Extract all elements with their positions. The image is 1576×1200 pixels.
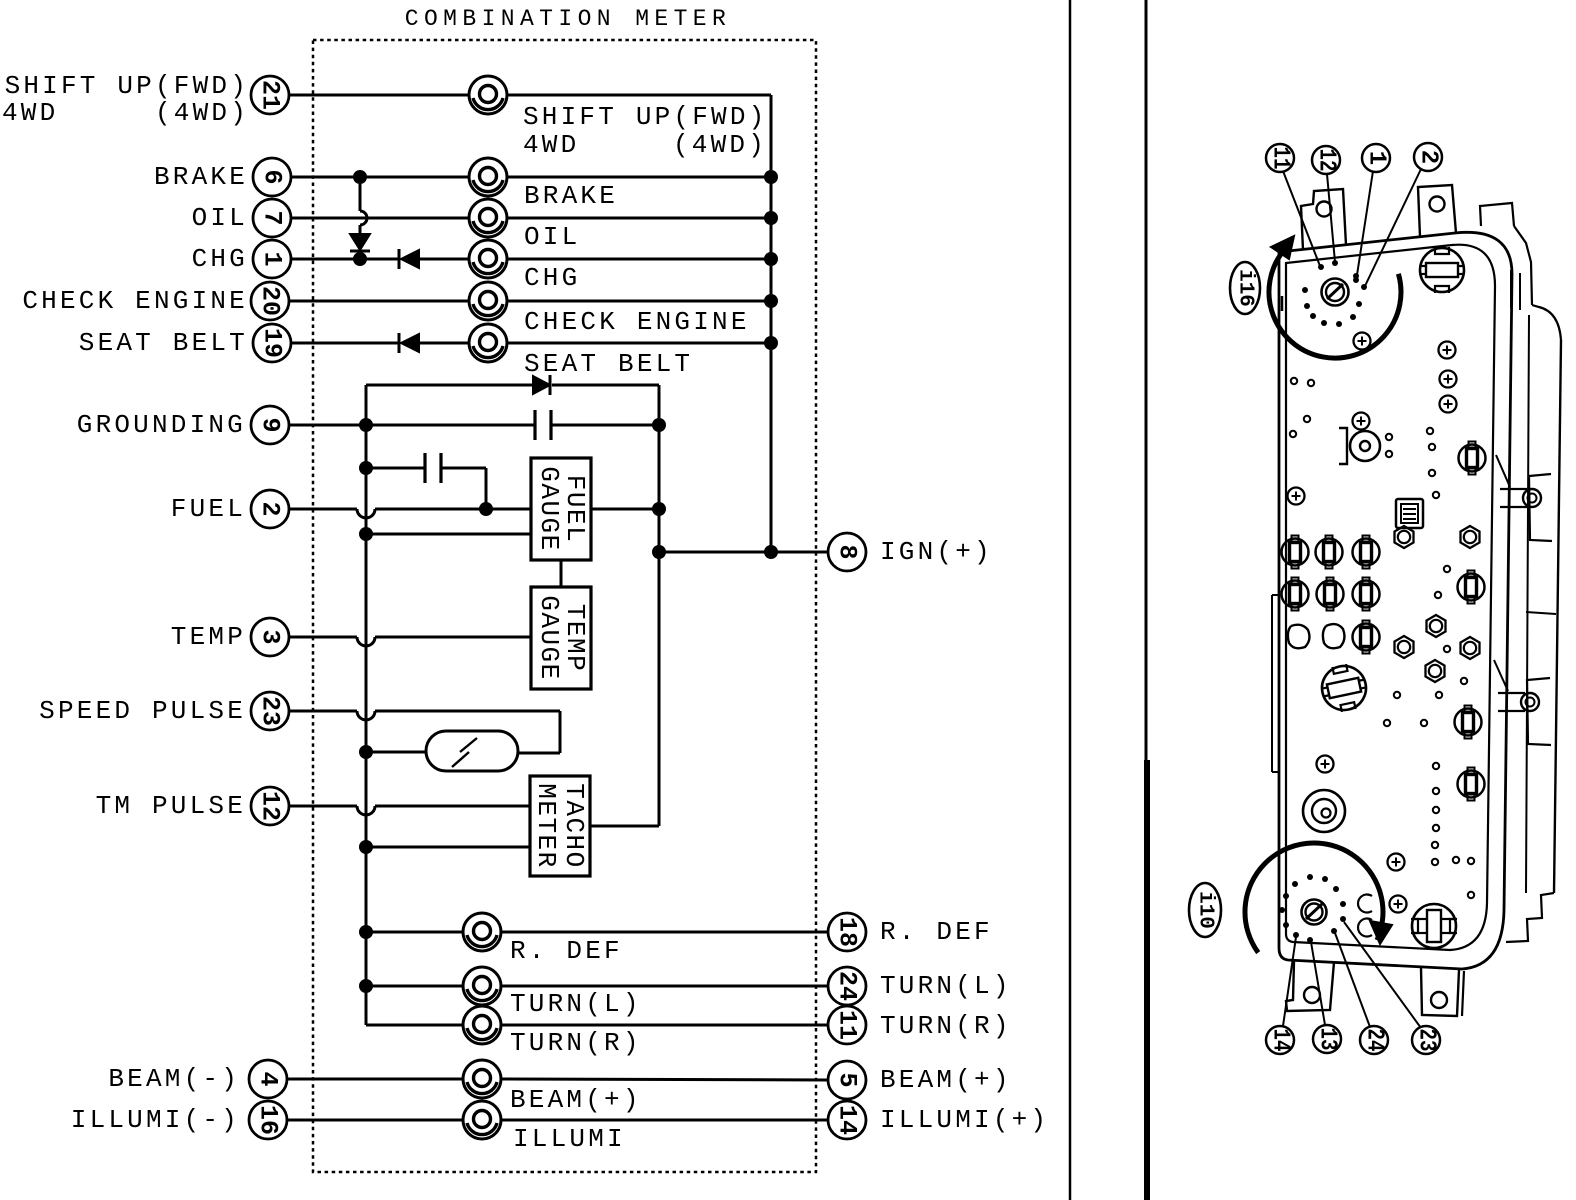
wire tacho lower xyxy=(366,846,530,849)
junction fuel-cap-branch xyxy=(479,502,493,516)
svg-text:TURN(L): TURN(L) xyxy=(510,989,642,1019)
wire diode loop top left xyxy=(366,384,534,387)
svg-text:16: 16 xyxy=(254,1105,283,1135)
svg-text:TURN(R): TURN(R) xyxy=(510,1028,642,1058)
lamp SEAT BELT xyxy=(469,324,507,362)
hex nut 2 xyxy=(1461,526,1480,548)
hex nut 1 xyxy=(1395,526,1414,548)
wire fuel hop xyxy=(357,509,375,518)
lamp SHIFT UP xyxy=(469,76,507,114)
connector pin 14 xyxy=(828,1101,866,1139)
svg-text:3: 3 xyxy=(256,629,285,644)
junction ign-right-bus xyxy=(764,545,778,559)
junction check-engine-bus xyxy=(764,294,778,308)
wire temp pin to hop xyxy=(289,636,357,639)
wire seat-belt lamp to bus xyxy=(507,342,771,345)
cross screw 1 xyxy=(1354,333,1371,350)
callout pin 13 xyxy=(1313,1025,1341,1053)
wire fuel pin to hop xyxy=(289,508,357,511)
wire oil pin to lamp xyxy=(291,217,469,220)
bulb socket 7 xyxy=(1353,621,1380,654)
junction chg-diode xyxy=(353,252,367,266)
key notch top connector xyxy=(1281,296,1284,311)
svg-text:19: 19 xyxy=(258,328,287,358)
svg-text:COMBINATION METER: COMBINATION METER xyxy=(405,6,731,32)
cross screw 8 xyxy=(1388,854,1405,871)
svg-text:ILLUMI(-): ILLUMI(-) xyxy=(71,1105,240,1135)
housing cross tick xyxy=(1526,612,1556,614)
bulb socket 4 xyxy=(1282,578,1309,611)
svg-text:1: 1 xyxy=(1363,151,1390,165)
svg-text:24: 24 xyxy=(1361,1029,1388,1052)
svg-text:23: 23 xyxy=(1413,1029,1440,1052)
label SEAT BELT inner xyxy=(524,349,693,379)
diode D4 loop xyxy=(533,375,550,395)
hinge pin lower xyxy=(1498,678,1551,745)
cross screw 9 xyxy=(1390,896,1407,913)
bulb socket 6 xyxy=(1353,578,1380,611)
big socket bottom xyxy=(1411,904,1457,948)
diode D1 brake-chg xyxy=(350,234,370,259)
svg-text:OIL: OIL xyxy=(192,203,248,233)
label 4WD inner xyxy=(523,130,579,160)
label OIL inner xyxy=(524,222,580,252)
callout pin 2 xyxy=(1414,143,1442,171)
wire rdef left xyxy=(366,931,463,934)
hex nut 6 xyxy=(1426,660,1445,682)
svg-text:TURN(R): TURN(R) xyxy=(880,1011,1012,1041)
svg-text:BRAKE: BRAKE xyxy=(154,162,248,192)
tacho meter box xyxy=(530,776,590,876)
meter body left tab xyxy=(1272,595,1279,772)
callout pin 1 xyxy=(1362,144,1390,172)
junction grounding-left-bus xyxy=(359,418,373,432)
socket arcs right of bottom connector xyxy=(1358,894,1372,936)
housing clip top-right xyxy=(1480,203,1532,305)
svg-text:SEAT BELT: SEAT BELT xyxy=(524,349,693,379)
label R. DEF inner xyxy=(510,936,623,966)
bulb socket 3 xyxy=(1353,536,1380,569)
connector pin 19 xyxy=(253,324,291,362)
connector pin 21 xyxy=(251,76,289,114)
label FUEL xyxy=(171,494,246,524)
bulb socket 9 xyxy=(1458,571,1485,604)
housing steps bottom-right xyxy=(1506,893,1554,942)
wire tm pin to hop xyxy=(289,805,357,808)
lamp ILLUMI xyxy=(463,1101,501,1139)
connector pin 8 xyxy=(828,533,866,571)
lamp CHECK ENGINE xyxy=(469,282,507,320)
separator line xyxy=(1069,0,1072,1200)
wire temp hop xyxy=(357,637,375,646)
wire ign from mid bus xyxy=(659,551,828,554)
svg-text:2: 2 xyxy=(1415,150,1442,164)
leader line pin 11 xyxy=(1283,171,1320,266)
wire chg diode to lamp xyxy=(419,258,469,261)
wire turnR lamp to pin xyxy=(501,1024,828,1027)
junction brake-bus xyxy=(764,170,778,184)
wire speed pin to hop xyxy=(289,710,357,713)
leader line pin 2 xyxy=(1365,169,1421,286)
bulb socket 11 xyxy=(1458,768,1485,801)
wire turnL lamp to pin xyxy=(501,985,828,988)
junction chg-bus xyxy=(764,252,778,266)
wire grounding cap to mid bus xyxy=(551,424,659,427)
svg-text:FUEL: FUEL xyxy=(171,494,246,524)
label SHIFT UP(FWD) xyxy=(5,71,249,101)
label SEAT BELT xyxy=(79,328,248,358)
wire illumi pin to lamp xyxy=(287,1119,463,1122)
label CHECK ENGINE xyxy=(22,286,248,316)
label BRAKE inner xyxy=(524,181,618,211)
connector pin 16 xyxy=(249,1101,287,1139)
label TEMP xyxy=(171,622,246,652)
connector pin 6 xyxy=(253,158,291,196)
cross screw 5 xyxy=(1353,413,1370,430)
wire speed hop to corner xyxy=(375,711,560,753)
svg-text:TEMP: TEMP xyxy=(171,622,246,652)
diode D3 seat belt xyxy=(399,333,419,353)
wire beam lamp to pin xyxy=(501,1079,828,1080)
connector pin 1 xyxy=(253,240,291,278)
label CHG xyxy=(192,244,248,274)
svg-text:TACHO: TACHO xyxy=(559,783,589,869)
svg-text:BEAM(+): BEAM(+) xyxy=(880,1065,1012,1095)
mounting tab top-right xyxy=(1418,185,1456,237)
lamp BRAKE xyxy=(469,158,507,196)
wire tm hop xyxy=(357,806,375,815)
wire brake pin to lamp xyxy=(291,176,469,179)
svg-text:SEAT BELT: SEAT BELT xyxy=(79,328,248,358)
vent connector xyxy=(1396,499,1423,528)
gauge motor xyxy=(1303,790,1345,832)
label ILLUMI(+) xyxy=(880,1105,1049,1135)
svg-text:ILLUMI: ILLUMI xyxy=(513,1124,626,1154)
wire fuel lower xyxy=(366,533,531,536)
label GROUNDING xyxy=(77,410,246,440)
cross screw 7 xyxy=(1317,756,1334,773)
svg-text:i16: i16 xyxy=(1234,269,1257,307)
wire fuel hop to gauge xyxy=(375,508,531,511)
junction seat-belt-bus xyxy=(764,336,778,350)
svg-text:IGN(+): IGN(+) xyxy=(880,537,993,567)
wire check-engine pin to lamp xyxy=(289,300,469,303)
hinge strut lower xyxy=(1494,660,1508,691)
junction rdef-left-bus xyxy=(359,925,373,939)
svg-text:21: 21 xyxy=(256,80,285,110)
svg-text:ILLUMI(+): ILLUMI(+) xyxy=(880,1105,1049,1135)
bulb socket 1 xyxy=(1282,536,1309,569)
wire oil lamp to bus xyxy=(507,217,771,220)
leader line pin 13 xyxy=(1311,942,1325,1025)
svg-text:BEAM(-): BEAM(-) xyxy=(108,1064,240,1094)
lamp CHG xyxy=(469,240,507,278)
connector pin 4 xyxy=(249,1060,287,1098)
wire reed to corner xyxy=(518,752,560,755)
connector pin 20 xyxy=(251,282,289,320)
lamp OIL xyxy=(469,199,507,237)
svg-text:OIL: OIL xyxy=(524,222,580,252)
callout pin 23 xyxy=(1412,1026,1440,1054)
wire seat-belt diode to lamp xyxy=(419,342,469,345)
hinge strut upper xyxy=(1496,455,1510,487)
screw bottom connector xyxy=(1302,900,1327,925)
wire chg pin to diode xyxy=(291,258,400,261)
capacitor C2 fuel xyxy=(425,453,441,483)
svg-text:4: 4 xyxy=(254,1071,283,1086)
leader line pin 12 xyxy=(1327,174,1335,262)
fuel gauge box xyxy=(531,458,591,560)
title COMBINATION METER xyxy=(405,6,731,32)
label (4WD) inner xyxy=(673,130,767,160)
housing ear arc xyxy=(1532,305,1561,340)
housing right inner edge xyxy=(1526,315,1529,893)
label R. DEF xyxy=(880,917,993,947)
connector pin 2 xyxy=(251,490,289,528)
label SPEED PULSE xyxy=(39,696,246,726)
svg-text:GAUGE: GAUGE xyxy=(534,466,564,552)
hex nut 3 xyxy=(1427,615,1446,637)
wire grounding pin to cap xyxy=(289,424,535,427)
junction turnL-left-bus xyxy=(359,979,373,993)
label (4WD) xyxy=(155,98,249,128)
frame line lower xyxy=(1144,760,1150,1200)
svg-text:GAUGE: GAUGE xyxy=(534,595,564,681)
junction oil-bus xyxy=(764,211,778,225)
svg-text:4WD: 4WD xyxy=(523,130,579,160)
label TURN(R) inner xyxy=(510,1028,642,1058)
capacitor C1 grounding xyxy=(535,410,551,440)
big socket top xyxy=(1420,247,1464,293)
label OIL xyxy=(192,203,248,233)
svg-text:6: 6 xyxy=(258,169,287,184)
wire speed hop xyxy=(357,711,375,720)
svg-text:14: 14 xyxy=(1267,1029,1294,1052)
svg-text:BEAM(+): BEAM(+) xyxy=(510,1085,642,1115)
wire fuel gauge to mid bus xyxy=(591,508,659,511)
svg-text:SHIFT UP(FWD): SHIFT UP(FWD) xyxy=(523,102,767,132)
label BEAM(+) inner xyxy=(510,1085,642,1115)
wire diode loop top right xyxy=(552,384,659,387)
trip hub xyxy=(1339,428,1380,464)
wire tm hop to tacho xyxy=(375,805,530,808)
rotation arrow bottom connector xyxy=(1370,921,1392,944)
rotation arc top connector xyxy=(1269,252,1401,358)
cross screw 6 xyxy=(1288,488,1305,505)
junction ign-mid-bus xyxy=(652,545,666,559)
label TM PULSE xyxy=(96,791,246,821)
svg-text:18: 18 xyxy=(833,917,862,947)
callout pin 14 xyxy=(1266,1026,1294,1054)
socket hole 1 xyxy=(1288,625,1310,649)
svg-text:TURN(L): TURN(L) xyxy=(880,971,1012,1001)
svg-text:METER: METER xyxy=(531,783,561,869)
connector pin 9 xyxy=(251,406,289,444)
wire left bus vertical xyxy=(365,385,368,1025)
connector pin 18 xyxy=(828,913,866,951)
svg-text:CHG: CHG xyxy=(524,263,580,293)
hex nut 5 xyxy=(1461,637,1480,659)
wire temp hop to gauge xyxy=(375,636,531,639)
wire shift-up pin to lamp xyxy=(289,94,469,97)
svg-text:13: 13 xyxy=(1314,1028,1341,1051)
rotation arc bottom connector xyxy=(1245,843,1383,953)
meter body inner rim xyxy=(1286,245,1495,950)
svg-text:5: 5 xyxy=(833,1072,862,1087)
junction fuel-out-mid-bus xyxy=(652,502,666,516)
wire fuel-temp gauge link xyxy=(560,560,563,587)
svg-text:i10: i10 xyxy=(1194,891,1217,929)
screw top connector xyxy=(1322,279,1349,306)
svg-text:(4WD): (4WD) xyxy=(673,130,767,160)
label TURN(R) xyxy=(880,1011,1012,1041)
leader line pin 23 xyxy=(1344,922,1421,1028)
big socket left-mid xyxy=(1318,661,1371,715)
lamp TURN(L) xyxy=(463,967,501,1005)
housing right edge xyxy=(1554,340,1561,893)
junction grounding-mid-bus xyxy=(652,418,666,432)
callout pin 12 xyxy=(1312,146,1340,174)
wire left bus to reed xyxy=(366,751,426,754)
cross screw 2 xyxy=(1439,342,1456,359)
svg-text:9: 9 xyxy=(256,417,285,432)
mounting tab top-left xyxy=(1301,189,1346,250)
svg-text:(4WD): (4WD) xyxy=(155,98,249,128)
hinge pin upper xyxy=(1500,474,1552,541)
wire seat-belt pin to diode xyxy=(291,342,400,345)
svg-text:23: 23 xyxy=(256,696,285,726)
junction fuel-lower-left-bus xyxy=(359,527,373,541)
connector pin 5 xyxy=(828,1061,866,1099)
connector pin 23 xyxy=(251,692,289,730)
rotation arrow top connector xyxy=(1271,236,1294,259)
lamp R.DEF xyxy=(463,913,501,951)
label CHECK ENGINE inner xyxy=(524,307,750,337)
housing clip slot xyxy=(1511,270,1520,310)
svg-text:12: 12 xyxy=(1313,149,1340,172)
svg-text:TM PULSE: TM PULSE xyxy=(96,791,246,821)
svg-text:20: 20 xyxy=(256,286,285,316)
frame line upper xyxy=(1145,0,1148,760)
leader line pin 14 xyxy=(1283,937,1296,1026)
callout pin 24 xyxy=(1360,1026,1388,1054)
wire illumi lamp to pin xyxy=(501,1119,828,1122)
bulb socket 10 xyxy=(1455,706,1482,739)
wire mid bus vertical xyxy=(658,385,661,826)
connector pin 3 xyxy=(251,618,289,656)
svg-text:SHIFT UP(FWD): SHIFT UP(FWD) xyxy=(5,71,249,101)
label IGN(+) xyxy=(880,537,993,567)
wire cap branch right xyxy=(441,468,486,509)
bulb socket 2 xyxy=(1316,536,1343,569)
cross screw 3 xyxy=(1440,371,1457,388)
svg-text:R. DEF: R. DEF xyxy=(510,936,623,966)
rivet dots xyxy=(1290,378,1474,898)
label BEAM(-) xyxy=(108,1064,240,1094)
hex nut 4 xyxy=(1395,636,1414,658)
connector pin 12 xyxy=(251,787,289,825)
label BEAM(+) xyxy=(880,1065,1012,1095)
wire rdef lamp to pin xyxy=(501,931,828,934)
label i16 xyxy=(1230,262,1260,314)
wire turnL left xyxy=(366,985,463,988)
label TURN(L) inner xyxy=(510,989,642,1019)
svg-text:14: 14 xyxy=(833,1105,862,1135)
socket hole 2 xyxy=(1323,624,1345,648)
svg-text:CHG: CHG xyxy=(192,244,248,274)
wire cap branch left xyxy=(366,467,425,470)
svg-text:BRAKE: BRAKE xyxy=(524,181,618,211)
bulb socket 8 xyxy=(1459,442,1486,475)
svg-text:GROUNDING: GROUNDING xyxy=(77,410,246,440)
connector pin 11 xyxy=(828,1006,866,1044)
mounting tab bottom-right xyxy=(1421,968,1464,1016)
mounting tab bottom-left xyxy=(1286,961,1334,1011)
svg-text:12: 12 xyxy=(256,791,285,821)
label CHG inner xyxy=(524,263,580,293)
connector pin 7 xyxy=(253,199,291,237)
leader line pin 1 xyxy=(1357,171,1373,275)
lamp BEAM xyxy=(463,1060,501,1098)
connector pin 24 xyxy=(828,967,866,1005)
bulb socket 5 xyxy=(1317,578,1344,611)
label ILLUMI inner xyxy=(513,1124,626,1154)
terminal dots top connector xyxy=(1302,260,1367,327)
wire diode chain upper xyxy=(359,177,362,211)
label BRAKE xyxy=(154,162,248,192)
svg-text:11: 11 xyxy=(833,1010,862,1040)
junction cap-branch-left-bus xyxy=(359,461,373,475)
wire right bus vertical xyxy=(770,95,773,552)
label SHIFT UP(FWD) inner xyxy=(523,102,767,132)
wire beam pin to lamp xyxy=(287,1078,463,1081)
wire diode chain hop over oil xyxy=(360,211,367,225)
svg-text:7: 7 xyxy=(258,210,287,225)
wire shift-up lamp to bus xyxy=(507,94,771,97)
svg-text:8: 8 xyxy=(833,544,862,559)
svg-text:R. DEF: R. DEF xyxy=(880,917,993,947)
wire diode chain lower xyxy=(359,225,362,234)
lamp TURN(R) xyxy=(463,1006,501,1044)
combination meter dashed enclosure xyxy=(313,40,816,1172)
svg-text:4WD: 4WD xyxy=(2,98,58,128)
wire brake lamp to bus xyxy=(507,176,771,179)
junction tacho-lower-left-bus xyxy=(359,840,373,854)
callout pin 11 xyxy=(1266,144,1294,172)
svg-text:11: 11 xyxy=(1267,147,1294,170)
svg-text:24: 24 xyxy=(833,971,862,1001)
svg-text:CHECK ENGINE: CHECK ENGINE xyxy=(22,286,248,316)
svg-text:1: 1 xyxy=(258,251,287,266)
wire chg lamp to bus xyxy=(507,258,771,261)
svg-text:SPEED PULSE: SPEED PULSE xyxy=(39,696,246,726)
junction brake-diode xyxy=(353,170,367,184)
svg-text:CHECK ENGINE: CHECK ENGINE xyxy=(524,307,750,337)
terminal dots bottom connector xyxy=(1279,874,1346,943)
cross screw 4 xyxy=(1440,396,1457,413)
diode D2 chg xyxy=(399,249,419,269)
label ILLUMI(-) xyxy=(71,1105,240,1135)
wire turnR left xyxy=(366,1024,463,1027)
label i10 xyxy=(1189,883,1221,937)
junction reed-left-bus xyxy=(359,745,373,759)
label TURN(L) xyxy=(880,971,1012,1001)
label 4WD xyxy=(2,98,58,128)
temp gauge box xyxy=(531,587,591,689)
leader line pin 24 xyxy=(1335,933,1370,1027)
meter body outline xyxy=(1279,232,1512,969)
svg-text:2: 2 xyxy=(256,501,285,516)
